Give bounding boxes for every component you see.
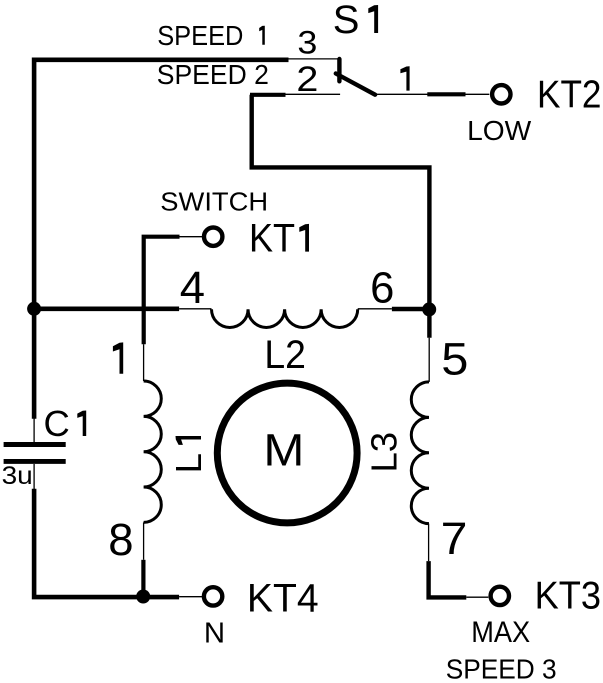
svg-text:L: L	[168, 453, 209, 473]
svg-text:KT4: KT4	[247, 576, 319, 620]
node digit 1	[113, 342, 123, 373]
wire: thin common line to KT2	[375, 93, 489, 95]
motor M circle	[217, 383, 357, 523]
wire: thick segment on common line	[427, 92, 465, 96]
wire: thick bottom-right corner to KT3	[429, 561, 467, 597]
svg-text:5: 5	[441, 333, 468, 384]
wire: thin lead to KT3	[466, 596, 488, 598]
switch contact digit 1	[400, 66, 409, 90]
svg-text:6: 6	[370, 264, 394, 312]
svg-text:7: 7	[441, 514, 468, 564]
switch S1 throw arm	[336, 74, 375, 95]
wire: thin lead capacitor top	[33, 416, 35, 442]
inductor L2 coil (4 arcs)	[212, 309, 358, 327]
junction dot node 6 (right)	[422, 302, 436, 316]
svg-text:L3: L3	[364, 432, 405, 473]
svg-text:SPEED 2: SPEED 2	[157, 58, 269, 90]
wire: thin lead out of L3 bottom	[428, 524, 430, 562]
label L3 (rotated)	[364, 432, 405, 473]
wire: main node-4 row horizontal	[34, 306, 179, 311]
inductor L1 coil (4 arcs, bulge right)	[144, 381, 162, 522]
svg-text:N: N	[204, 618, 225, 650]
svg-text:3u: 3u	[2, 462, 33, 490]
svg-text:KT3: KT3	[535, 574, 601, 618]
wire: thin right bus above L3	[428, 338, 430, 382]
svg-text:LOW: LOW	[467, 115, 532, 146]
svg-text:SWITCH: SWITCH	[160, 187, 268, 216]
svg-text:4: 4	[180, 262, 205, 313]
wire: thick stub L2 to right bus	[392, 307, 430, 311]
svg-text:KT2: KT2	[537, 72, 601, 116]
switch S1 pole bar	[337, 59, 341, 81]
wire: thin lead to switch contact 3	[289, 58, 338, 60]
label L1 (rotated)	[168, 436, 209, 473]
terminal KT2 circle	[492, 85, 510, 103]
svg-text:2: 2	[296, 59, 318, 98]
capacitor C1 bottom plate	[4, 459, 66, 464]
wire: thin lead to KT1	[180, 236, 203, 238]
terminal KT3 circle	[491, 587, 509, 605]
svg-text:KT: KT	[249, 216, 295, 261]
wire: thin lead out of L2 right	[358, 308, 392, 310]
svg-text:L2: L2	[264, 333, 306, 378]
svg-text:C: C	[44, 403, 70, 444]
inductor L3 coil (4 arcs, bulge left)	[411, 382, 429, 524]
junction dot node 4 (left)	[27, 302, 41, 316]
wire: top bus SPEED1 + left vertical bus (upper)	[34, 60, 288, 419]
svg-text:MAX: MAX	[471, 615, 530, 648]
junction dot node 8 (bottom)	[136, 590, 150, 604]
svg-text:8: 8	[108, 514, 133, 565]
wire: thick stub at switch contact 2	[250, 93, 286, 97]
svg-text:3: 3	[297, 25, 317, 61]
terminal KT1 circle	[204, 228, 222, 246]
svg-text:SPEED: SPEED	[157, 20, 243, 51]
svg-text:M: M	[263, 425, 304, 476]
svg-text:S: S	[333, 0, 360, 42]
wire: thin lead into L2 left	[179, 308, 211, 310]
wire: thick L1 bottom to junction	[141, 560, 145, 597]
wire: thin lead capacitor bottom	[33, 464, 35, 491]
wire: thin lead out of L1 bottom	[143, 522, 145, 559]
capacitor C1 top plate	[4, 442, 66, 447]
svg-text:SPEED 3: SPEED 3	[446, 652, 557, 683]
terminal KT4 circle	[204, 587, 222, 605]
wire: contact2 down, across, right vertical bus	[252, 95, 430, 338]
wire: KT1 stub thick + vertical down crossing node row	[144, 237, 180, 345]
wire: thin lead to switch contact 2	[286, 93, 341, 95]
wire: thin lead into L1 top	[143, 344, 145, 381]
wire: thin lead to KT4	[179, 596, 202, 598]
wire: left vertical bus (lower) + bottom bus to KT4	[34, 489, 179, 597]
